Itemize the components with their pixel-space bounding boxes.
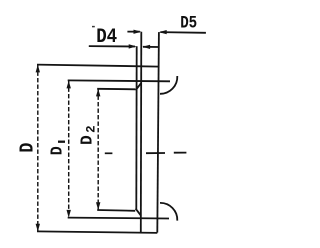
dimension line D5 left — [127, 31, 139, 33]
dimension line D2 (vertical, dashed) — [97, 89, 99, 210]
extension rail top of D2 — [97, 88, 135, 91]
arrow up at D2 top — [96, 89, 100, 97]
arrow down at D bottom — [36, 224, 40, 232]
arrow left at D4 right tail — [142, 45, 150, 49]
arrow down at D1 bottom — [67, 210, 71, 218]
arrow up at D1 top — [67, 81, 71, 89]
part: top lip arc — [160, 76, 177, 94]
dimension line D4 right tail — [143, 46, 158, 48]
svg-text:D: D — [47, 146, 66, 155]
extension rail top of D — [37, 65, 160, 67]
arrow right at D5 left line — [134, 30, 142, 34]
arrow down at D2 bottom — [96, 202, 100, 210]
svg-text:D2: D2 — [77, 125, 98, 145]
label D1 subscript 1 (rotated bar) — [58, 141, 65, 143]
dimension line D1 (vertical, dashed) — [68, 81, 70, 218]
extension rail bottom of D2 — [97, 209, 135, 212]
part: bottom bend diagonal — [136, 209, 141, 216]
part: disc right face — [140, 32, 143, 234]
part: skirt outer face — [157, 32, 159, 233]
speck near D4 — [92, 26, 95, 28]
extension rail bottom of D1 — [68, 217, 169, 220]
centerline dash 1 — [105, 152, 113, 154]
extension rail top of D1 — [68, 79, 170, 82]
extension rail bottom of D — [37, 231, 157, 233]
dimension line D (vertical, dashed) — [37, 65, 39, 231]
part: disc left face — [135, 46, 137, 209]
centerline dash 3 — [174, 152, 187, 154]
svg-text:D4: D4 — [96, 26, 117, 49]
arrow left at D5 right line — [159, 30, 167, 34]
part: bottom lip arc — [160, 203, 177, 221]
svg-text:D: D — [16, 143, 38, 153]
dimension line D4 (with underline of label) — [89, 45, 135, 47]
svg-text:D5: D5 — [180, 14, 197, 33]
dimension line D5 right (label underline) — [160, 31, 206, 34]
part: top bend diagonal — [136, 83, 141, 90]
centerline dash 2 — [146, 152, 165, 154]
arrow up at D top — [36, 65, 40, 73]
arrow right at D4 line — [129, 44, 137, 48]
